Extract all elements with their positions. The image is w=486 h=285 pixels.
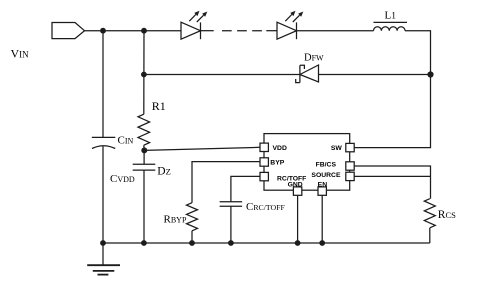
svg-text:L1: L1 — [385, 10, 397, 22]
wire: D1 cathode, dashed LED-string continuation — [201, 30, 278, 32]
capacitor CRC/TOFF — [220, 202, 243, 207]
junction: ground rail at Dz — [141, 240, 147, 246]
wire: DFW cathode to R1 branch — [144, 74, 300, 76]
LED D2 — [277, 11, 303, 39]
pin SOURCE — [346, 172, 354, 180]
wire: RCS to ground rail — [429, 228, 431, 243]
svg-text:BYP: BYP — [270, 160, 284, 167]
svg-text:EN: EN — [318, 182, 328, 189]
wire: EN pin to ground rail — [321, 195, 323, 243]
pin FB/CS — [346, 162, 354, 170]
svg-text:FB/CS: FB/CS — [316, 161, 337, 168]
pin SW — [346, 143, 354, 151]
pin GND — [293, 187, 301, 195]
junction: VIN node at R1 branch — [141, 28, 147, 34]
ground rail wire — [103, 242, 430, 244]
wire: VDD node to VDD pin — [144, 147, 260, 150]
wire: VIN plug to LED D1 anode — [85, 30, 182, 32]
svg-text:R1: R1 — [152, 99, 166, 113]
wire: VDD node down to Dz — [143, 150, 145, 164]
wire: RC/TOFF pin to CRC/TOFF — [231, 176, 260, 201]
resistor RBYP — [187, 203, 198, 231]
wire: SOURCE pin to CS node — [354, 175, 430, 177]
wire: DFW anode to SW node — [319, 74, 431, 76]
svg-text:GND: GND — [288, 182, 303, 189]
wire: Dz to ground rail — [143, 170, 145, 243]
inductor L1 — [374, 27, 406, 31]
junction: SW node / DFW anode — [427, 71, 433, 77]
LED D1 — [181, 11, 207, 39]
wire: FB/CS pin to CS node — [354, 166, 430, 199]
svg-text:DZ: DZ — [157, 166, 171, 178]
resistor R1 — [138, 114, 150, 145]
svg-text:RBYP: RBYP — [164, 214, 187, 226]
label L1 (with underline) — [374, 10, 408, 23]
wire: D2 cathode to L1 — [297, 30, 374, 32]
svg-text:DFW: DFW — [304, 53, 324, 64]
junction: DFW cathode at R1 branch — [141, 72, 147, 78]
pin VDD — [260, 143, 268, 151]
pin EN — [318, 187, 326, 195]
svg-text:CIN: CIN — [118, 135, 134, 147]
wire: BYP pin to RBYP — [192, 162, 260, 203]
wire: CIN to ground rail — [102, 146, 104, 243]
svg-text:RCS: RCS — [438, 209, 456, 221]
svg-text:VIN: VIN — [11, 47, 30, 61]
junction: VIN node at CIN branch — [100, 28, 106, 34]
zener Dz / capacitor CVDD plates — [133, 164, 156, 170]
wire: VIN rail down to R1 — [143, 31, 145, 115]
wire: RBYP to ground rail — [191, 231, 193, 243]
junction: ground rail at CIN — [100, 240, 106, 246]
resistor RCS — [424, 199, 435, 228]
pin BYP — [260, 158, 268, 166]
svg-text:SW: SW — [331, 145, 343, 152]
wire: CRC/TOFF to ground rail — [230, 206, 232, 243]
connector J1 (VIN input plug) — [52, 23, 85, 39]
junction: ground rail at GND pin — [295, 240, 301, 246]
wire: R1 to VDD node — [143, 145, 146, 150]
junction: ground rail at CRC/TOFF — [228, 240, 234, 246]
svg-text:CVDD: CVDD — [110, 173, 135, 185]
op-amp U1 (LED driver IC body) — [264, 134, 350, 191]
wire: VIN node down to CIN — [102, 31, 104, 138]
wire: GND pin to ground rail — [297, 195, 299, 243]
ground — [87, 243, 120, 275]
capacitor CIN — [92, 137, 116, 148]
svg-text:VDD: VDD — [273, 145, 287, 152]
svg-text:SOURCE: SOURCE — [311, 172, 341, 179]
pin RC/TOFF — [260, 172, 268, 180]
junction: VDD node — [141, 147, 147, 153]
junction: ground rail at EN pin — [319, 240, 325, 246]
diode DFW (schottky) — [296, 65, 319, 83]
junction: ground rail at RBYP — [189, 240, 195, 246]
svg-text:CRC/TOFF: CRC/TOFF — [246, 201, 285, 213]
wire: L1 to SW pin (SW node) — [354, 31, 430, 148]
